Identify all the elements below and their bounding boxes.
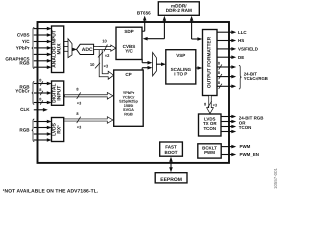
svg-text:FAST: FAST [165, 144, 177, 149]
svg-text:YPbPr: YPbPr [16, 45, 30, 50]
svg-text:EEPROM: EEPROM [160, 177, 182, 183]
svg-text:PWM_EN: PWM_EN [240, 152, 259, 157]
svg-text:SDP: SDP [124, 29, 133, 34]
svg-text:ADC: ADC [82, 47, 93, 53]
svg-text:TCON: TCON [239, 125, 252, 130]
svg-text:¹NOT AVAILABLE ON THE ADV7186-: ¹NOT AVAILABLE ON THE ADV7186-TL. [3, 188, 99, 194]
svg-text:CVBS: CVBS [17, 33, 30, 38]
svg-text:TCON: TCON [203, 126, 216, 131]
svg-text:BOOT: BOOT [165, 150, 178, 155]
svg-text:PWM: PWM [240, 144, 251, 149]
svg-text:DDR-2 RAM: DDR-2 RAM [166, 8, 192, 13]
svg-text:YCbCr/RGB: YCbCr/RGB [244, 76, 268, 81]
svg-text:CLK: CLK [20, 107, 30, 112]
svg-text:BT656: BT656 [137, 10, 151, 15]
svg-text:10557-001: 10557-001 [273, 167, 278, 189]
svg-text:VSP: VSP [176, 53, 185, 58]
svg-text:10: 10 [102, 39, 107, 44]
svg-text:DE: DE [238, 55, 244, 60]
svg-text:RX¹: RX¹ [57, 125, 63, 134]
svg-text:RGB: RGB [124, 113, 133, 117]
svg-text:PWM: PWM [204, 150, 215, 155]
svg-text:I TO P: I TO P [174, 72, 187, 77]
svg-text:INPUT: INPUT [57, 86, 63, 101]
svg-text:OUTPUT FORMATTER: OUTPUT FORMATTER [206, 36, 212, 88]
svg-text:Y/C: Y/C [22, 39, 30, 44]
svg-text:Y/C: Y/C [125, 49, 133, 54]
svg-text:HS: HS [238, 38, 244, 43]
svg-text:VS/FIELD: VS/FIELD [238, 47, 259, 52]
svg-text:RGB: RGB [19, 61, 30, 66]
svg-text:CP: CP [125, 72, 131, 77]
svg-text:LLC: LLC [238, 30, 247, 35]
svg-text:RGB: RGB [19, 127, 30, 132]
svg-text:MUX: MUX [57, 43, 63, 55]
svg-text:×3: ×3 [104, 63, 109, 68]
svg-text:×2: ×2 [105, 53, 110, 58]
svg-text:10: 10 [90, 62, 95, 67]
svg-text:YCbCr: YCbCr [15, 88, 30, 93]
